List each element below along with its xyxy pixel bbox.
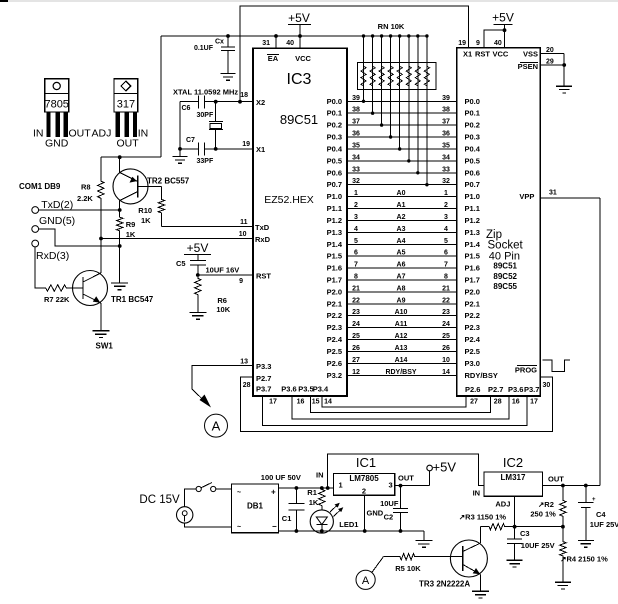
svg-text:OUT: OUT <box>117 138 140 150</box>
svg-text:COM1 DB9: COM1 DB9 <box>19 182 61 191</box>
decorative top-left mark <box>0 0 8 2</box>
svg-text:10UF 16V: 10UF 16V <box>206 266 240 275</box>
svg-text:VCC: VCC <box>295 54 311 63</box>
svg-text:ADJ: ADJ <box>495 500 510 509</box>
wire switch to DB1 <box>216 488 232 490</box>
svg-text:30: 30 <box>543 382 551 389</box>
wire DC- rail <box>279 529 424 533</box>
svg-text:EZ52.HEX: EZ52.HEX <box>264 194 314 206</box>
svg-text:GND: GND <box>367 509 384 518</box>
ground (C3) <box>507 560 523 567</box>
wire bus row P2.0/pin 21 <box>327 285 480 296</box>
svg-text:23: 23 <box>442 309 450 316</box>
svg-text:P3.2: P3.2 <box>327 371 342 380</box>
svg-text:IC1: IC1 <box>356 455 376 470</box>
svg-text:28: 28 <box>494 399 502 406</box>
svg-text:P0.5: P0.5 <box>465 156 480 165</box>
svg-text:C6: C6 <box>182 105 191 112</box>
wire bus row P0.7/pin 32 <box>327 178 480 189</box>
svg-text:TxD: TxD <box>255 223 270 232</box>
svg-text:P1.7: P1.7 <box>465 276 480 285</box>
svg-text:DC 15V: DC 15V <box>139 494 180 506</box>
svg-text:1K: 1K <box>141 216 151 225</box>
resistor R3 1150 1% <box>459 513 506 530</box>
wire VSS pin20 <box>540 47 564 54</box>
svg-text:P1.6: P1.6 <box>327 264 342 273</box>
svg-text:P2.6: P2.6 <box>327 359 342 368</box>
svg-text:35: 35 <box>442 143 450 150</box>
svg-text:24: 24 <box>442 321 450 328</box>
svg-text:R6: R6 <box>217 296 227 305</box>
svg-text:7: 7 <box>444 262 448 269</box>
wire bus row P1.0/pin 1 <box>327 190 480 201</box>
svg-text:R10: R10 <box>138 206 152 215</box>
svg-text:P2.0: P2.0 <box>327 287 342 296</box>
svg-text:A5: A5 <box>397 250 406 257</box>
svg-text:A4: A4 <box>397 238 406 245</box>
label 317 pins ADJ OUT IN <box>92 128 149 150</box>
svg-text:39: 39 <box>352 95 360 102</box>
wire bus row P3.2/pin 12 <box>327 369 498 380</box>
svg-text:P2.5: P2.5 <box>465 347 480 356</box>
svg-text:TxD(2): TxD(2) <box>41 199 73 211</box>
svg-text:P3.0: P3.0 <box>465 359 480 368</box>
wire crystal ground leg <box>178 102 182 157</box>
voltage regulator IC2 LM317 <box>473 455 565 509</box>
svg-text:2: 2 <box>362 487 366 496</box>
svg-text:ADJ: ADJ <box>92 128 112 140</box>
svg-text:33: 33 <box>352 166 360 173</box>
node GND(5) terminal <box>32 215 75 232</box>
wire P3.3 to A <box>192 366 253 408</box>
power +5V (IC3 VCC) <box>288 11 311 38</box>
svg-text:30PF: 30PF <box>197 112 214 119</box>
svg-text:VCC: VCC <box>493 50 509 59</box>
svg-text:−: − <box>272 522 277 531</box>
node pin40 VCC label <box>494 40 502 47</box>
wire pin40 stub <box>286 36 300 48</box>
svg-text:89C55: 89C55 <box>493 282 517 291</box>
svg-text:3: 3 <box>444 214 448 221</box>
wire RN leg 7 <box>416 34 419 174</box>
wire bus row P1.6/pin 7 <box>327 262 480 273</box>
svg-text:RxD(3): RxD(3) <box>36 250 69 262</box>
svg-text:1: 1 <box>444 190 448 197</box>
wire A to R5 <box>372 557 399 573</box>
wire IC2 OUT rail <box>543 484 600 488</box>
resistor network RN 10K <box>357 22 436 89</box>
svg-text:10UF 25V: 10UF 25V <box>521 541 555 550</box>
svg-text:27: 27 <box>352 357 360 364</box>
svg-text:P2.1: P2.1 <box>465 299 480 308</box>
svg-text:A7: A7 <box>397 274 406 281</box>
label COM1 DB9 <box>19 182 61 191</box>
svg-text:26: 26 <box>352 345 360 352</box>
node P2.7 / pin 28 <box>243 374 272 389</box>
svg-text:P0.0: P0.0 <box>327 97 342 106</box>
svg-text:P0.1: P0.1 <box>327 109 342 118</box>
svg-text:LM317: LM317 <box>501 473 526 482</box>
svg-text:P0.7: P0.7 <box>465 180 480 189</box>
wire P3.7 to socket pin17 <box>263 396 528 425</box>
node DC jack <box>177 507 193 523</box>
regulator 7805 package <box>44 79 68 137</box>
wire +5V top bus <box>161 36 427 157</box>
node pin19 X1 label <box>458 40 466 47</box>
svg-text:GND: GND <box>45 138 69 150</box>
svg-text:P2.2: P2.2 <box>465 311 480 320</box>
capacitor C7 33PF <box>180 137 214 165</box>
svg-text:100 UF 50V: 100 UF 50V <box>261 473 301 482</box>
svg-text:38: 38 <box>352 107 360 114</box>
wire TR2 collector <box>118 201 122 217</box>
svg-text:40: 40 <box>494 40 502 47</box>
svg-text:23: 23 <box>352 309 360 316</box>
svg-text:DB1: DB1 <box>247 502 264 511</box>
svg-text:P0.3: P0.3 <box>327 133 342 142</box>
wire RST <box>196 273 253 277</box>
svg-text:31: 31 <box>262 40 270 47</box>
svg-text:P0.2: P0.2 <box>465 121 480 130</box>
svg-text:5: 5 <box>444 238 448 245</box>
svg-text:34: 34 <box>352 154 360 161</box>
svg-text:33PF: 33PF <box>197 158 214 165</box>
svg-text:39: 39 <box>442 95 450 102</box>
svg-text:32: 32 <box>352 178 360 185</box>
wire RN leg 4 <box>389 34 392 138</box>
svg-text:IC3: IC3 <box>287 71 312 88</box>
svg-text:SW1: SW1 <box>96 342 114 351</box>
wire P3.5 to socket pin28 <box>310 396 490 413</box>
svg-text:33: 33 <box>442 166 450 173</box>
svg-text:P2.7: P2.7 <box>256 374 271 383</box>
wire GND(5) <box>39 229 120 246</box>
svg-text:~: ~ <box>237 524 241 531</box>
svg-text:40: 40 <box>286 40 294 47</box>
ground (R6) <box>189 312 206 319</box>
svg-text:P1.2: P1.2 <box>327 216 342 225</box>
wire bus row P1.3/pin 4 <box>327 226 480 237</box>
svg-text:A3: A3 <box>397 226 406 233</box>
svg-text:P2.4: P2.4 <box>465 335 481 344</box>
svg-text:P1.4: P1.4 <box>465 240 481 249</box>
wire RN leg 2 <box>371 34 374 115</box>
svg-text:34: 34 <box>442 154 450 161</box>
svg-text:4: 4 <box>444 226 448 233</box>
wire TR2 base to R10 <box>138 186 162 198</box>
svg-text:P2.4: P2.4 <box>327 335 343 344</box>
wire R3 to ADJ node <box>506 525 565 529</box>
svg-text:22: 22 <box>352 297 360 304</box>
LED LED1 <box>310 503 358 533</box>
svg-text:P0.2: P0.2 <box>327 121 342 130</box>
svg-text:P1.2: P1.2 <box>465 216 480 225</box>
node RST / pin 9 <box>239 272 271 286</box>
ground (C4) <box>578 540 594 547</box>
svg-text:A14: A14 <box>395 357 408 364</box>
transistor TR3 2N2222A <box>419 540 487 589</box>
svg-text:21: 21 <box>352 285 360 292</box>
svg-text:A8: A8 <box>397 285 406 292</box>
svg-text:EA: EA <box>268 54 279 63</box>
wire bus row P2.5/pin 26 <box>327 345 480 356</box>
svg-text:A9: A9 <box>397 297 406 304</box>
svg-text:38: 38 <box>442 107 450 114</box>
ground (R9/GND5) <box>111 283 128 290</box>
svg-text:R1: R1 <box>307 488 317 497</box>
wire X2-to-X1 top loop <box>238 6 468 104</box>
svg-text:P2.2: P2.2 <box>327 311 342 320</box>
wire IC1 input over-the-top to IC2 <box>328 454 484 488</box>
svg-text:P2.1: P2.1 <box>327 299 342 308</box>
crystal XTAL 11.0592 MHz <box>173 88 238 149</box>
wire R5 to TR3 base <box>416 556 450 558</box>
svg-text:1: 1 <box>339 481 343 490</box>
svg-text:89C51: 89C51 <box>493 262 517 271</box>
svg-text:IC2: IC2 <box>503 455 523 470</box>
svg-text:P1.6: P1.6 <box>465 264 480 273</box>
svg-text:16: 16 <box>297 399 305 406</box>
svg-text:P3.6: P3.6 <box>281 385 296 394</box>
svg-text:↗R3 1150 1%: ↗R3 1150 1% <box>459 513 506 522</box>
svg-text:RDY/BSY: RDY/BSY <box>385 369 416 376</box>
wire bus row P0.6/pin 33 <box>327 166 480 177</box>
node X2 / pin 18 label <box>240 92 265 107</box>
svg-text:27: 27 <box>470 399 478 406</box>
svg-text:R7 22K: R7 22K <box>44 295 70 304</box>
svg-text:3: 3 <box>389 481 393 490</box>
svg-text:36: 36 <box>352 131 360 138</box>
wire bus row P0.1/pin 38 <box>327 107 480 118</box>
wire R10 to TxD pin11 <box>161 214 163 227</box>
svg-text:1UF 25V: 1UF 25V <box>590 520 618 529</box>
wire +5V feed (emitter rail) <box>101 155 161 179</box>
svg-text:10K: 10K <box>216 305 230 314</box>
svg-text:6: 6 <box>354 250 358 257</box>
svg-text:VPP: VPP <box>519 192 534 201</box>
svg-text:37: 37 <box>442 119 450 126</box>
svg-text:5: 5 <box>354 238 358 245</box>
svg-text:8: 8 <box>354 274 358 281</box>
svg-text:R8: R8 <box>81 183 91 192</box>
svg-text:OUT: OUT <box>398 474 414 483</box>
svg-text:Cx: Cx <box>215 39 224 46</box>
wire bus row P2.1/pin 22 <box>327 297 480 308</box>
svg-text:317: 317 <box>117 99 135 111</box>
svg-text:C7: C7 <box>186 137 195 144</box>
svg-text:+: + <box>592 497 596 503</box>
svg-text:37: 37 <box>352 119 360 126</box>
node socket pin28 P2.7 <box>488 385 503 406</box>
svg-text:P1.1: P1.1 <box>465 204 480 213</box>
wire bus row P0.4/pin 35 <box>327 143 481 154</box>
resistor R2 250 1% <box>530 486 566 527</box>
svg-text:3: 3 <box>354 214 358 221</box>
svg-text:26: 26 <box>442 345 450 352</box>
ground SW1 <box>92 331 113 351</box>
svg-text:2: 2 <box>444 202 448 209</box>
wire RST to +5V <box>484 28 506 47</box>
svg-text:17: 17 <box>269 399 277 406</box>
svg-text:13: 13 <box>240 359 248 366</box>
wire bus row P2.6/pin 27 <box>327 357 480 368</box>
wire jack bottom to DB1 <box>185 523 232 527</box>
socket Zip Socket 40 Pin <box>457 48 541 396</box>
svg-text:P0.6: P0.6 <box>465 168 480 177</box>
svg-text:C4: C4 <box>596 510 606 519</box>
svg-text:14: 14 <box>324 399 332 406</box>
svg-text:15: 15 <box>312 399 320 406</box>
capacitor C3 10UF 25V <box>507 529 555 560</box>
wire P3.6 to socket pin16 <box>292 396 509 419</box>
wire bus row P2.4/pin 25 <box>327 333 481 344</box>
svg-text:9: 9 <box>239 278 243 285</box>
svg-text:C3: C3 <box>520 529 530 538</box>
svg-text:LM7805: LM7805 <box>349 474 379 483</box>
svg-text:A11: A11 <box>395 321 408 328</box>
wire X2 <box>205 100 254 104</box>
svg-text:A0: A0 <box>397 190 406 197</box>
ground (crystal) <box>173 157 188 164</box>
wire RxD <box>99 237 253 241</box>
label DC 15V <box>139 494 180 506</box>
svg-text:29: 29 <box>546 59 554 66</box>
wire RN leg 5 <box>398 34 401 150</box>
wire VPP down right side <box>599 198 601 486</box>
svg-text:P1.3: P1.3 <box>465 228 480 237</box>
resistor R5 10K <box>395 554 421 574</box>
svg-text:9: 9 <box>476 40 480 47</box>
svg-text:0.1UF: 0.1UF <box>194 45 214 52</box>
svg-text:35: 35 <box>352 143 360 150</box>
svg-text:+5V: +5V <box>433 460 457 475</box>
svg-text:A: A <box>362 575 370 587</box>
svg-text:19: 19 <box>458 40 466 47</box>
resistor R4 2150 1% <box>560 527 608 583</box>
svg-text:P0.7: P0.7 <box>327 180 342 189</box>
svg-text:18: 18 <box>240 92 248 99</box>
wire TxD <box>162 226 254 228</box>
svg-text:7: 7 <box>354 262 358 269</box>
svg-text:XTAL 11.0592 MHz: XTAL 11.0592 MHz <box>173 88 238 97</box>
capacitor C2 10UF <box>380 486 408 531</box>
wire bus row P0.3/pin 36 <box>327 131 480 142</box>
svg-text:RxD: RxD <box>255 235 271 244</box>
svg-text:P3.7: P3.7 <box>256 385 271 394</box>
svg-text:+5V: +5V <box>187 241 209 255</box>
svg-text:C5: C5 <box>176 259 186 268</box>
svg-text:36: 36 <box>442 131 450 138</box>
svg-text:17: 17 <box>530 399 538 406</box>
capacitor C5 10UF 16V <box>176 259 239 275</box>
wire RN leg 6 <box>407 34 410 162</box>
wire PSEN pin29 <box>540 59 566 67</box>
svg-text:P2.0: P2.0 <box>465 287 480 296</box>
wire bus row P2.2/pin 23 <box>327 309 480 320</box>
ground (TR3) <box>472 591 489 598</box>
capacitor Cx 0.1UF <box>194 34 235 73</box>
wire TxD(2) <box>39 209 120 211</box>
wire pin31 stub <box>262 34 278 48</box>
svg-text:P1.1: P1.1 <box>327 204 342 213</box>
svg-text:~: ~ <box>237 490 241 497</box>
svg-text:VSS: VSS <box>523 50 538 59</box>
svg-text:A: A <box>212 419 221 434</box>
wire TR1 collector to R8 <box>100 200 102 273</box>
svg-text:IN: IN <box>473 489 481 498</box>
svg-text:24: 24 <box>352 321 360 328</box>
svg-text:R9: R9 <box>126 220 136 229</box>
wire TR1 emitter to ground <box>100 303 102 331</box>
wire bus row P1.1/pin 2 <box>327 202 480 213</box>
svg-text:89C52: 89C52 <box>493 272 517 281</box>
ground (Cx) <box>221 74 236 81</box>
voltage regulator IC1 LM7805 <box>316 455 414 496</box>
svg-text:OUT: OUT <box>69 128 92 140</box>
svg-text:1K: 1K <box>126 230 136 239</box>
svg-text:P1.7: P1.7 <box>327 276 342 285</box>
node P3.4 pin 14 <box>313 385 332 406</box>
wire bus row P0.0/pin 39 <box>327 95 480 106</box>
svg-text:R5 10K: R5 10K <box>395 564 421 573</box>
svg-text:A12: A12 <box>395 333 408 340</box>
svg-text:250 1%: 250 1% <box>530 510 556 519</box>
capacitor C1 100UF 50V <box>261 473 305 531</box>
IC IC3 89C51 microcontroller <box>253 48 347 396</box>
svg-text:+: + <box>271 488 276 497</box>
svg-text:OUT: OUT <box>548 475 564 484</box>
transistor TR2 BC557 <box>113 157 190 204</box>
svg-text:TR2 BC557: TR2 BC557 <box>147 177 190 186</box>
waveform pulse symbol <box>543 360 570 372</box>
svg-text:IN: IN <box>138 128 149 140</box>
wire RxD(3) to R7 <box>35 247 44 288</box>
svg-text:11: 11 <box>240 219 248 226</box>
svg-text:RDY/BSY: RDY/BSY <box>465 371 498 380</box>
wire VPP pin31 <box>540 190 600 198</box>
svg-text:P1.0: P1.0 <box>465 192 480 201</box>
svg-text:P2.6: P2.6 <box>465 385 480 394</box>
svg-text:20: 20 <box>546 47 554 54</box>
resistor R8 2.2K <box>77 180 104 203</box>
node A (current loop out) <box>205 414 228 437</box>
wire P2.7 to PROG <box>241 377 553 431</box>
node X1 / pin 19 label <box>242 141 265 154</box>
svg-text:A10: A10 <box>395 309 408 316</box>
svg-text:P0.6: P0.6 <box>327 168 342 177</box>
power +5V terminal <box>427 460 457 486</box>
bridge rectifier DB1 <box>232 484 279 533</box>
svg-text:31: 31 <box>549 190 557 197</box>
svg-text:1K: 1K <box>309 498 319 507</box>
node pin9 RST label <box>476 40 480 47</box>
svg-text:P2.3: P2.3 <box>327 323 342 332</box>
wire DC+ rail <box>279 486 334 490</box>
transistor TR1 BC547 <box>73 271 154 306</box>
ground (R4) <box>555 582 571 589</box>
ground (supply) <box>415 531 432 547</box>
svg-text:P3.3: P3.3 <box>256 362 271 371</box>
wire bus row P1.4/pin 5 <box>327 238 481 249</box>
svg-text:P0.1: P0.1 <box>465 109 480 118</box>
svg-text:2.2K: 2.2K <box>77 194 93 203</box>
svg-text:P1.4: P1.4 <box>327 240 343 249</box>
svg-text:IN: IN <box>33 128 44 140</box>
svg-text:21: 21 <box>442 285 450 292</box>
svg-text:P0.4: P0.4 <box>327 145 343 154</box>
svg-text:+5V: +5V <box>288 11 310 25</box>
wire bus row P2.3/pin 24 <box>327 321 480 332</box>
